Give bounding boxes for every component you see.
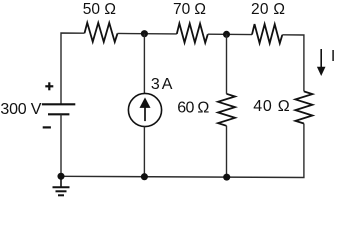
resistor 40Ω <box>295 91 312 123</box>
current arrow I <box>317 49 326 76</box>
wire top between 50Ω and 70Ω <box>118 32 177 34</box>
svg-text:A: A <box>162 76 173 93</box>
node dot bottom-left <box>57 173 64 180</box>
svg-text:300 V: 300 V <box>0 101 41 118</box>
label 300V <box>0 101 41 118</box>
label 70Ω <box>173 1 206 18</box>
label 20Ω <box>251 1 285 18</box>
wire current-source top stub <box>143 34 145 94</box>
current source 3A <box>128 93 161 126</box>
wire current-source bottom stub <box>143 126 145 177</box>
label 50Ω <box>83 1 116 18</box>
minus sign <box>43 126 51 128</box>
svg-text:40 Ω: 40 Ω <box>253 98 290 115</box>
resistor 70Ω <box>177 23 208 42</box>
resistor 20Ω <box>252 24 282 43</box>
label 40Ω <box>253 98 290 115</box>
plus sign <box>45 82 53 90</box>
ground <box>53 176 70 195</box>
label I <box>331 48 335 65</box>
svg-text:I: I <box>331 48 335 65</box>
wire right-bottom corner segment <box>227 124 304 178</box>
wire top-right corner <box>282 35 304 92</box>
svg-text:70 Ω: 70 Ω <box>173 1 206 18</box>
svg-text:3: 3 <box>151 76 160 93</box>
node dot top-1 <box>141 30 148 37</box>
svg-text:60 Ω: 60 Ω <box>177 100 209 117</box>
wire top-left corner segment <box>61 33 85 104</box>
voltage source 300V battery <box>42 104 75 114</box>
node dot top-2 <box>223 31 230 38</box>
resistor 60Ω <box>218 94 235 126</box>
wire left-bottom segment <box>60 114 62 176</box>
node dot bottom-middle <box>141 173 148 180</box>
wire bottom rail <box>61 175 227 178</box>
svg-text:20 Ω: 20 Ω <box>251 1 285 18</box>
label 3A <box>151 76 173 93</box>
label 60Ω <box>177 100 209 117</box>
node dot bottom-right <box>223 174 230 181</box>
resistor 50Ω <box>85 23 118 42</box>
wire top between 70Ω and 20Ω <box>208 33 252 35</box>
wire 60Ω bottom stub <box>226 126 228 177</box>
wire 60Ω top stub <box>226 34 228 93</box>
svg-text:50 Ω: 50 Ω <box>83 1 116 18</box>
